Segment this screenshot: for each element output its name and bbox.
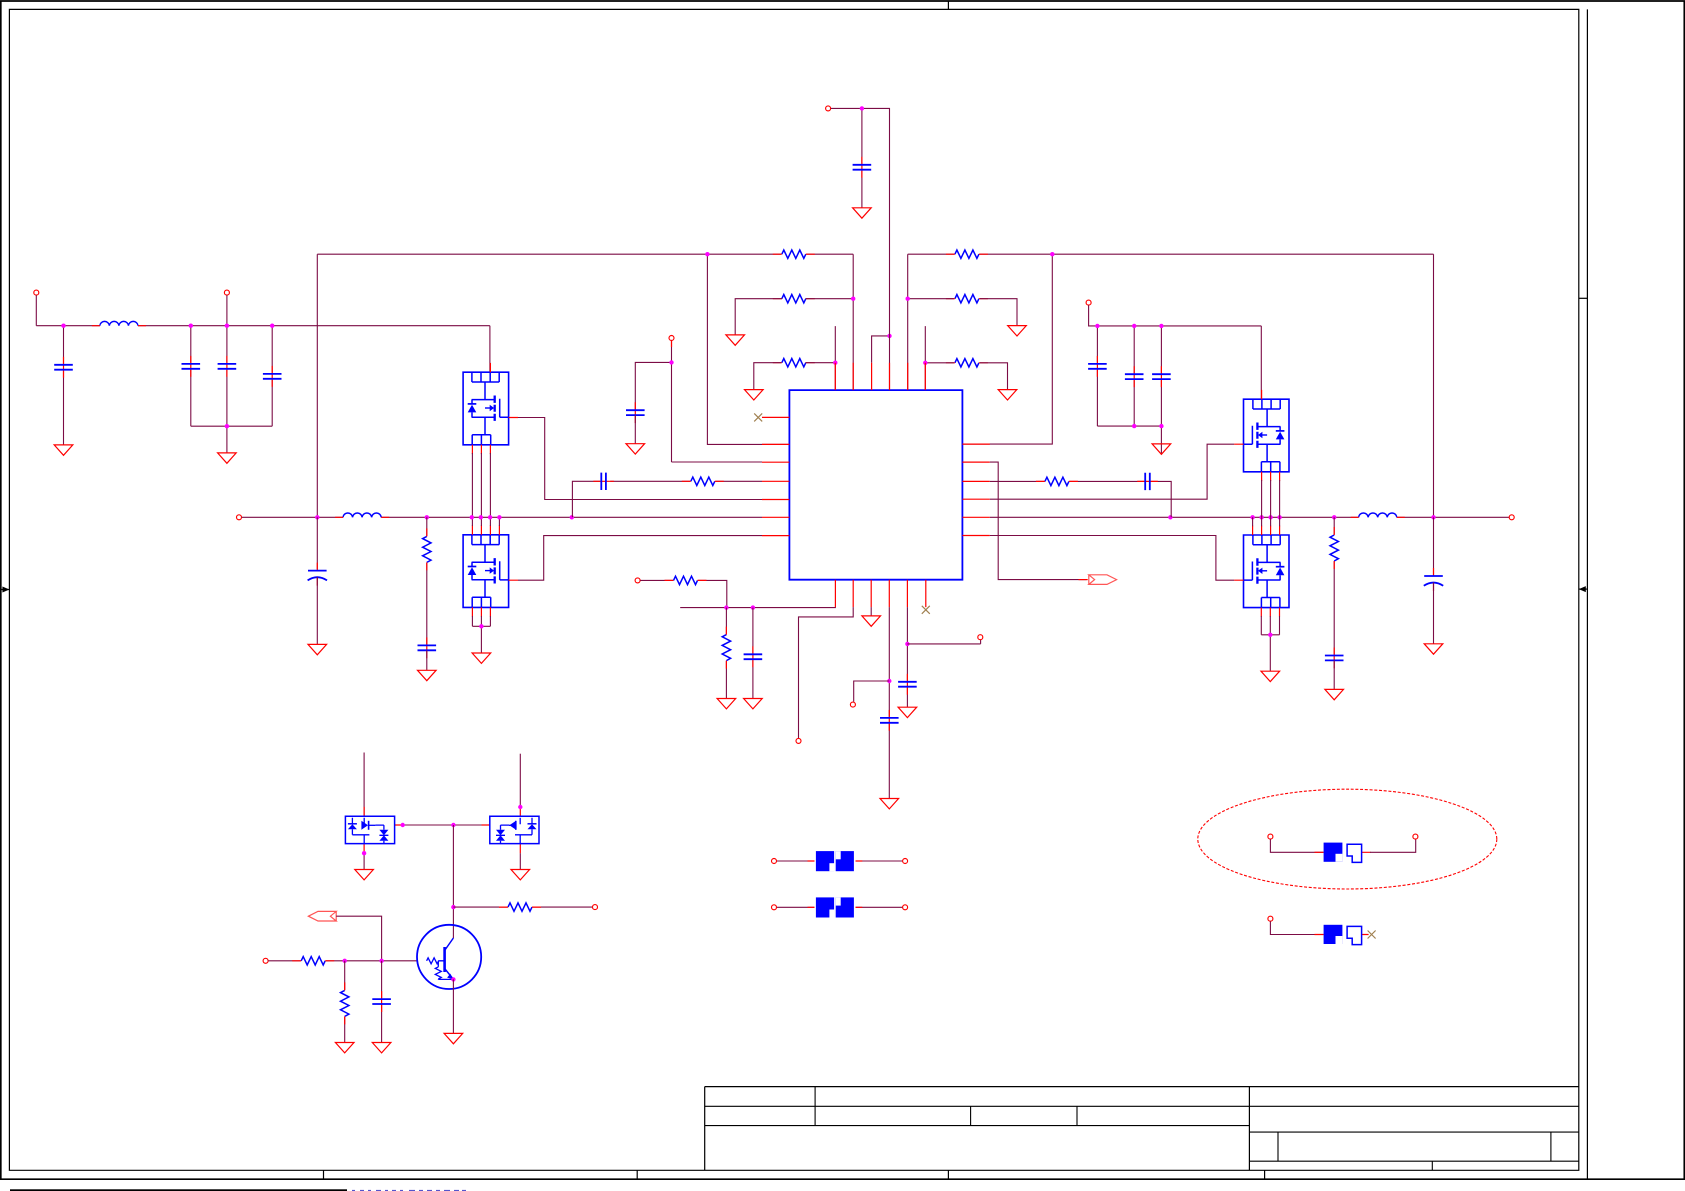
diode package D2 [490,816,539,843]
capacitor C10 [625,409,645,416]
ground G21 below D1 [355,870,374,880]
wire C13 to ground [316,577,318,644]
ground G3 below R2 [726,335,745,345]
ground G2 below C3 [218,453,237,463]
wire Q2 gate net [518,536,762,581]
resistor R12 [721,634,732,661]
junctions cap trio [1095,324,1099,328]
wire input + drop [35,295,37,325]
wire R9 leg [1333,517,1335,655]
resistor R13 base [301,955,326,966]
wire Q4 gate net [990,536,1234,581]
zone tick bottom 2 [636,1170,638,1179]
wire C1 leg [63,326,65,445]
ground G13 Q4 source [1261,671,1280,681]
wire B4 branch to port [854,681,890,702]
port J14 fuse1 right [903,859,908,864]
title block row lines right [1249,1132,1578,1161]
port J15 fuse2 left [772,905,777,910]
port J7 feedback [635,578,640,583]
title block cell dividers right [1278,1132,1551,1170]
off-page flag left [308,911,336,921]
wire R6 left to pin T6 [925,326,954,390]
IC U1 left pins [762,417,789,535]
wire C9a leg [1096,326,1098,426]
title block outline [705,1087,1579,1171]
junctions input rail [61,324,65,328]
junctions SW bus left [315,515,319,519]
zone tick bottom 1 [323,1170,325,1179]
inductor L2 SW left [343,516,381,518]
title block row lines left [705,1106,1579,1125]
junction B4 [887,679,891,683]
ground G20 below C19 [898,707,917,717]
capacitor C20 [372,998,392,1005]
transistor Q5 with bias resistors [417,925,481,989]
port J4 SW left [237,515,242,520]
ground G24 below C20 [372,1043,391,1053]
ground G15 below C15 [1424,644,1443,654]
fold arrow left [1,589,10,591]
title block column dividers left [815,1087,1077,1126]
wire R3 to ground [754,363,782,390]
no-connect X pin L1 [754,413,762,421]
wire VCC drop to Q3 drain [1260,326,1262,399]
conn1 leads [1315,851,1371,853]
resistor R11 FB [673,575,698,586]
ground G4 below R3 [745,390,764,400]
junction B5 [905,642,909,646]
wire C4 leg [271,326,273,427]
junctions base rail [343,959,347,963]
capacitor C1 [54,364,74,371]
port J11 status [593,905,598,910]
wire Q2 source join [472,616,490,653]
wire pin R2 to flag [990,462,1087,579]
wire emitter to ground [452,979,454,1033]
transistor Q4 low-side right [1244,535,1290,608]
wire R2 to ground [735,299,782,335]
wire C10 to ground [634,415,636,444]
wire VCC top [831,108,890,390]
wire enable branch to C10 [635,362,671,410]
junction top port [860,106,864,110]
wire trio join bar [1097,425,1161,427]
diode package D1 [345,816,394,843]
wire DA to DB [403,824,490,826]
wire conn1 left [1270,839,1323,852]
wire R3 right to pin T1 [806,326,836,390]
ground G16 below R12 [717,699,736,709]
resistor R4 [954,249,979,260]
wire C13 leg [316,517,318,570]
wire R5 left lead [908,298,954,300]
wire input sense drop [226,295,228,325]
IC U1 right pins [962,444,989,535]
wire C14 to ground [1333,660,1335,689]
wire pin B3 ground [870,607,872,616]
off-page flag right [1089,575,1117,585]
wire C9b leg [1133,326,1135,426]
capacitor C2 [181,363,201,370]
fold arrow right [1579,588,1588,590]
capacitor C13 polarized [307,569,327,580]
Q1 pin stubs [472,363,518,454]
capacitor C9a [1087,363,1107,370]
capacitor C15 polarized [1424,575,1444,586]
wire B5 branch to port [907,640,980,644]
watermark underline [10,1189,347,1191]
port J18 conn1 right [1413,834,1418,839]
IC U1 controller [789,390,962,580]
wire C20 leg [381,961,383,1043]
wire Q3 gate net [990,444,1234,499]
zone tick bottom 3 [947,1170,949,1179]
DB pin leads [482,807,521,853]
ground G25 emitter [444,1033,463,1043]
port J2 VCC top [826,106,831,111]
DA pin leads [364,807,403,853]
inductor L3 SW right [1359,516,1397,518]
wire C2 leg [190,326,192,427]
port J17 conn1 left [1268,834,1273,839]
junction Q4 source [1268,633,1272,637]
wire rail to pin L2 vertical [707,254,789,444]
junctions SW bus right [1168,515,1172,519]
Q4 pin stubs bottom [1261,608,1279,617]
wire R8 leg [426,517,428,645]
ground G1 below C1 [54,445,73,455]
capacitor C19 on B5 [897,681,917,688]
fuse F2 [815,897,856,918]
capacitor C4 [262,373,282,380]
wire SW bus right [990,516,1509,518]
wire fuse row 2 [777,906,905,908]
fuse row 2 leads [808,906,863,908]
wire diode node to Q5 collector [452,825,454,938]
wire fuse row 1 [777,860,905,862]
wire C17 leg [752,608,754,699]
port J16 fuse2 right [903,905,908,910]
resistor R10 comp right [1044,476,1069,487]
Q2 pin stubs bottom [472,607,490,616]
resistor R15 collector [508,902,533,913]
junctions diode row [401,823,405,827]
wire top rail right drop to bus [1433,254,1435,517]
junction enable net [669,360,673,364]
port J10 ref [978,635,983,640]
wire SW bus left [242,516,762,518]
wire conn1 right [1370,839,1416,852]
ground G12 Q2 source [472,653,491,663]
wire collector branch [453,906,592,908]
capacitor C9b [1124,373,1144,380]
transistor Q2 low-side left [463,535,509,608]
resistor R5 second row right [954,293,979,304]
ground G9 below C10 [626,444,645,454]
ground G23 below R14 [335,1043,354,1053]
highlight ellipse [1198,789,1497,889]
capacitor C8 top bypass [852,164,872,171]
ground G7 below R6 [998,390,1017,400]
wire R14 leg [344,961,346,1043]
port J19 conn2 left [1268,916,1273,921]
flag lead [1079,579,1088,581]
wire Q3 source columns [1262,480,1280,517]
capacitor C16 comp right [1144,472,1151,491]
capacitor C12 below R8 [417,644,437,651]
wire RC comp right [990,481,1171,517]
inductor L1 input [100,325,138,327]
junction collector node [451,905,455,909]
resistor R3 third row [781,357,806,368]
IC U1 bottom pins [835,580,925,607]
resistor R14 [339,990,350,1017]
wire DB top stub [519,754,521,807]
capacitor C3 [217,363,237,370]
wire C3 leg [226,326,228,453]
resistor R2 second row [781,293,806,304]
wire FB series [640,580,727,607]
ground G18 pin B3 [862,616,881,626]
fuse row 1 leads [808,860,863,862]
wire Q1 gate net [518,418,762,500]
fuse F1 [815,851,856,872]
connector CN2 [1324,925,1343,944]
port J9 comp [850,702,855,707]
Q4 pin stubs top [1234,526,1280,581]
transistor Q3 high-side right [1244,399,1290,472]
ground G6 below R5 [1008,326,1027,336]
ground G22 below D2 [511,870,530,880]
wire top rail left [317,253,853,255]
wire rail to pin T2 vertical [852,254,854,390]
wire pin B1 jog [680,606,835,609]
ground G10 below C12 [418,670,437,680]
port J13 fuse1 left [772,859,777,864]
wire enable net [672,341,763,462]
port J6 SW right [1509,515,1514,520]
port J5 enable [669,336,674,341]
resistor R6 third row right [954,357,979,368]
capacitor C14 below R9 [1324,654,1344,661]
no-connect X pin B6 [922,606,930,614]
wire flag to base [336,916,381,961]
wire pin B5 chain [906,607,908,707]
wire C15 leg [1433,517,1435,576]
wire top rail right [908,253,1434,255]
wire DB ground stub [519,853,521,869]
wire R6 to ground [980,363,1008,390]
junctions top-right rail [906,297,910,301]
ground G11 below C13 [308,644,327,654]
Q3 pin stubs [1234,390,1280,481]
wire pin B4 chain [888,607,890,798]
ground G19 below C18 [880,799,899,809]
wire VIN drop to Q1 drain [489,326,491,373]
wire rail to pin T5 vertical [907,254,909,390]
ground G8 below trio [1152,444,1171,454]
wire R2 right lead [806,298,854,300]
port J8 soft-start [796,738,801,743]
wire C8 leg [861,108,863,207]
wire pin T3 jog [872,336,890,363]
capacitor C11 comp [600,472,607,491]
ground G17 below C17 [744,699,763,709]
wire base rail [268,960,417,962]
wire pin B2 to port [799,607,854,738]
resistor R8 feedback [421,536,432,563]
wire rail right to pin R1 [962,254,1052,444]
zone tick right [1579,297,1588,299]
ground G14 below C14 [1325,689,1344,699]
capacitor C9c [1151,373,1171,380]
wire C15 to ground [1433,582,1435,643]
wire C12 to ground [426,650,428,670]
wire RC comp left [572,481,762,517]
junction emitter [451,977,455,981]
resistor R9 [1329,535,1340,562]
wire cap join bar [191,425,272,427]
conn2 leads [1315,934,1369,936]
wire Q1 source columns [472,453,490,517]
zone tick top [947,1,949,9]
port J1-2 input sense [224,290,229,295]
wire DA ground stub [363,853,365,869]
capacitor C18 on B4 [879,717,899,724]
transistor Q1 high-side left [463,372,509,445]
port J1-1 input + [34,290,39,295]
capacitor C17 [743,653,763,660]
port J12 base input [263,958,268,963]
ground G5 below C8 [853,208,872,218]
wire top rail left drop [316,254,318,517]
wire bus to Q4 drain stubs [1253,517,1280,526]
IC U1 top pins [835,363,925,390]
wire DA top stub [363,753,365,817]
Q2 pin stubs top [472,525,518,580]
wire Q1 top stub [489,363,491,372]
junctions top-left rail [705,252,709,256]
resistor R7 comp [690,476,715,487]
sheet zone column line right [1586,9,1588,1179]
junctions FB node [724,605,728,609]
wire input rail VIN [36,325,490,327]
junction Q2 source [479,624,483,628]
port J5 stub [671,341,673,347]
watermark text sliver [352,1190,466,1191]
port J3 VCC right [1086,300,1091,305]
wire C9c leg [1160,326,1162,454]
wire VCC right rail [1089,305,1262,326]
wire Q4 source join [1261,616,1279,671]
resistor R1 [781,249,806,260]
wire R5 to ground [980,299,1017,326]
wire conn2 left [1270,921,1323,934]
wire bus to Q2 drain stubs [472,517,499,526]
wire R12 leg [725,608,727,699]
connector CN1 [1324,843,1343,862]
no-connect X conn2 [1368,931,1376,939]
zone tick bottom 4 [1264,1170,1266,1179]
